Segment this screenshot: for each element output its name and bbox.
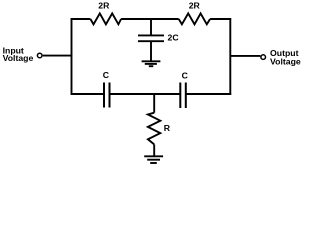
ground under 2C <box>142 61 161 66</box>
svg-text:C: C <box>182 71 189 81</box>
output terminal circle <box>261 55 266 60</box>
wire right vertical <box>229 18 231 95</box>
resistor R <box>148 113 160 145</box>
wire stub top junction to 2C <box>150 18 152 34</box>
svg-text:C: C <box>103 70 110 80</box>
wire bottom-right segment <box>186 93 231 95</box>
ground under R <box>144 156 163 163</box>
resistor 2R left <box>90 13 121 24</box>
resistor 2R right <box>179 13 210 24</box>
svg-text:Voltage: Voltage <box>3 53 34 63</box>
wire 2C to ground <box>150 41 152 61</box>
wire R to ground <box>153 144 155 156</box>
input wire <box>43 55 73 57</box>
capacitor C right, right plate <box>185 83 187 109</box>
wire top-middle segment <box>121 18 179 20</box>
capacitor C left, left plate <box>103 83 105 108</box>
wire top-right segment <box>210 18 231 20</box>
svg-text:2R: 2R <box>98 0 110 10</box>
svg-text:2C: 2C <box>168 32 180 42</box>
svg-text:Voltage: Voltage <box>270 57 301 67</box>
wire bottom-left segment <box>71 93 104 95</box>
wire bottom-middle segment <box>110 93 181 95</box>
svg-text:R: R <box>164 123 171 133</box>
input terminal circle <box>37 53 42 58</box>
wire stub bottom junction to R <box>153 94 155 113</box>
capacitor 2C top plate <box>138 34 164 36</box>
capacitor C left, right plate <box>109 83 111 108</box>
wire top-left segment <box>71 18 91 20</box>
svg-text:2R: 2R <box>189 0 201 10</box>
capacitor 2C bottom plate <box>138 40 164 42</box>
output wire <box>230 55 260 57</box>
wire left vertical <box>71 18 73 95</box>
capacitor C right, left plate <box>179 83 181 109</box>
